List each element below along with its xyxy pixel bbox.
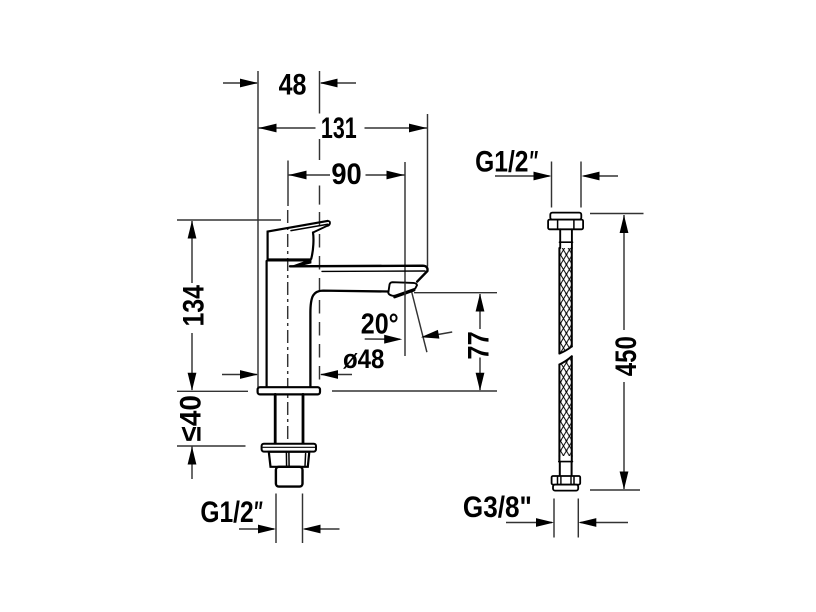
- svg-text:G1/2: G1/2: [200, 494, 253, 528]
- extension line y=391 right of faucet: [332, 390, 497, 392]
- svg-text:48: 48: [279, 67, 307, 101]
- hidden extension line x=319.5 dashed: [319, 71, 321, 114]
- hose bottom neck: [559, 462, 561, 476]
- dimension 90: [289, 158, 405, 191]
- aerator centerline overdraw: [404, 283, 406, 296]
- svg-text:G1/2: G1/2: [475, 144, 528, 178]
- hose top nut: [548, 220, 583, 230]
- dimension 77 vertical: [461, 294, 494, 391]
- svg-text:77: 77: [461, 331, 494, 359]
- svg-text:134: 134: [176, 284, 210, 326]
- arrow toward tilt line: [438, 332, 452, 335]
- svg-text:″: ″: [254, 496, 263, 529]
- aerator: [388, 282, 417, 296]
- arrow toward vertical line: [365, 338, 400, 340]
- dimension 48: [223, 67, 356, 101]
- faucet lever inner top line: [291, 224, 328, 230]
- svg-text:≤40: ≤40: [175, 395, 208, 441]
- svg-text:131: 131: [321, 110, 357, 145]
- extension line left x=258: [257, 71, 259, 388]
- shank left edge: [274, 394, 277, 444]
- aerator centerline x=405: [404, 162, 406, 356]
- hose bottom cap: [553, 485, 578, 491]
- extension line y=220 handle top: [177, 219, 281, 221]
- hose top cap: [550, 213, 581, 220]
- aerator thick underline: [395, 290, 415, 297]
- faucet spout underside and body right edge: [310, 291, 388, 388]
- dimension 134 vertical: [176, 221, 210, 391]
- G3/8 extension lines: [553, 499, 555, 538]
- svg-text:90: 90: [331, 158, 361, 191]
- faucet spout top edge: [290, 266, 428, 282]
- faucet body left edge: [266, 261, 268, 388]
- tilt line: [411, 290, 427, 352]
- dimension <=40 vertical: [175, 395, 208, 479]
- dimension 450 vertical: [608, 215, 642, 490]
- svg-text:″: ″: [530, 146, 539, 179]
- faucet lever right edge: [311, 233, 313, 259]
- G1/2 bottom extension lines: [275, 494, 277, 544]
- extension line y=293 aerator level: [414, 292, 497, 294]
- tailpiece: [276, 467, 303, 487]
- faucet shadow wedge under lever: [289, 259, 311, 267]
- faucet lever left+top edge: [268, 221, 328, 260]
- G1/2 top extension lines: [551, 162, 553, 208]
- hose bottom nut: [552, 476, 581, 485]
- hose bottom band: [558, 456, 560, 462]
- washer flange: [262, 444, 316, 452]
- 450 extension line bottom: [590, 489, 640, 491]
- extension line y=391 left (flange level): [177, 390, 248, 392]
- base flange: [258, 387, 320, 394]
- dimension o48: [222, 345, 384, 379]
- hose bottom nut facet lines: [557, 477, 559, 484]
- svg-text:20°: 20°: [361, 308, 399, 340]
- shank right edge: [302, 394, 305, 444]
- svg-text:ø48: ø48: [343, 345, 384, 375]
- faucet centerline x=287.7 dash-dot: [287, 161, 289, 207]
- dimension G1/2 bottom: [200, 494, 339, 533]
- dimension G1/2 top: [475, 144, 618, 180]
- hose top nut facet lines: [557, 221, 559, 229]
- angle 20 deg: [361, 290, 452, 352]
- faucet spout inner top line: [322, 270, 425, 272]
- hose top neck: [559, 229, 561, 248]
- extension line y=446 left: [177, 445, 246, 447]
- braided hose section 1: [559, 248, 571, 354]
- dimension G3/8: [463, 490, 628, 527]
- extension line spout tip x=427.5: [427, 114, 429, 267]
- 450 extension line top: [590, 213, 644, 215]
- hex nut: [269, 452, 310, 467]
- washer inner line: [263, 446, 315, 448]
- dimension 131: [259, 110, 428, 145]
- faucet lever bottom bar: [267, 258, 312, 261]
- hex nut facet lines: [285, 453, 287, 467]
- svg-text:450: 450: [608, 336, 642, 376]
- faucet lever tip and chin: [313, 221, 330, 233]
- svg-text:G3/8": G3/8": [463, 490, 532, 523]
- braided hose section 2: [559, 356, 571, 456]
